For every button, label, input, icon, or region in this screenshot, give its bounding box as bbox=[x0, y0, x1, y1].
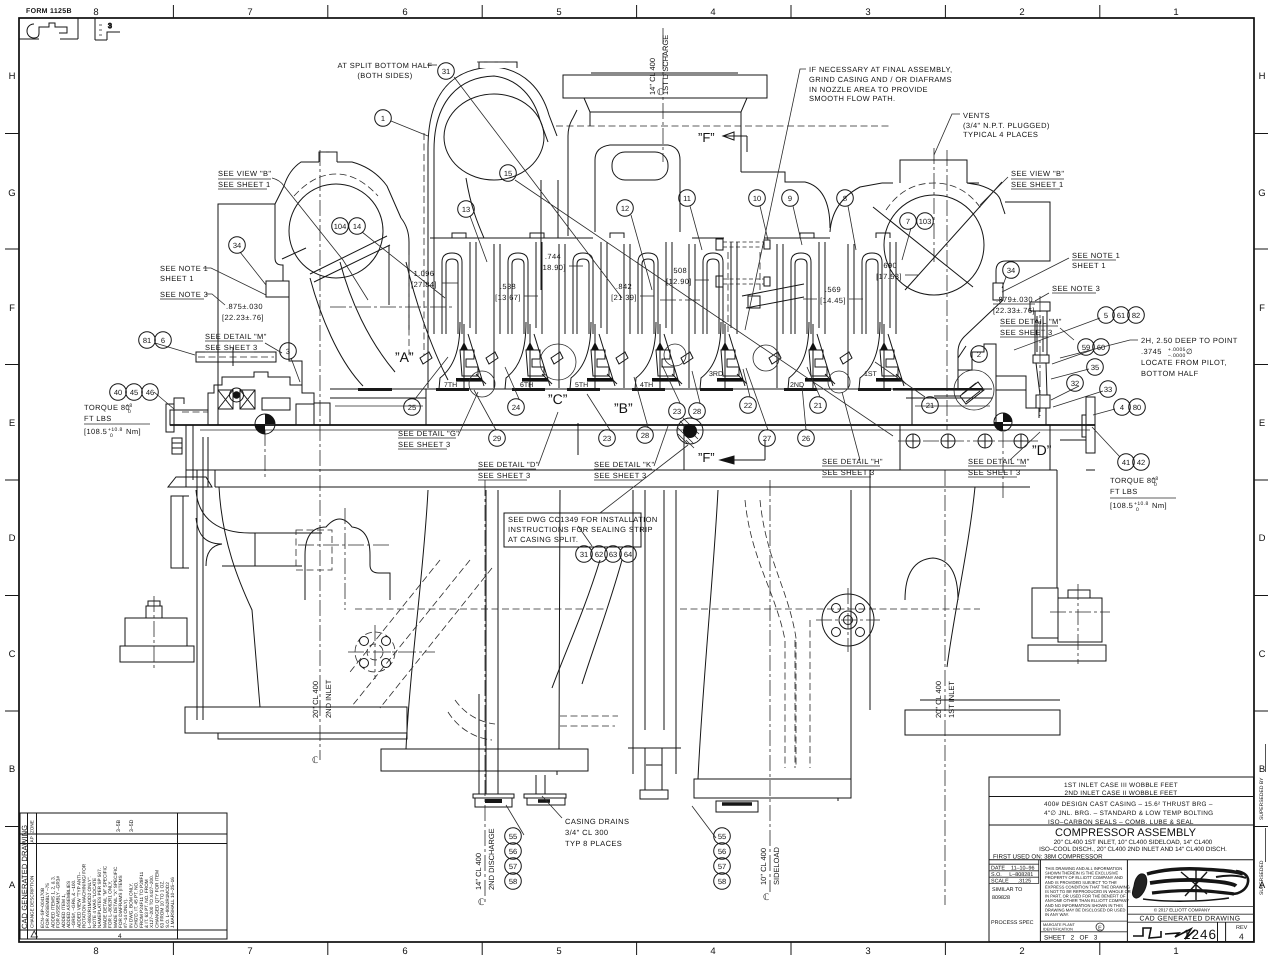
left bell studs bbox=[479, 490, 498, 794]
svg-text:F: F bbox=[1259, 303, 1265, 314]
svg-text:E: E bbox=[9, 418, 15, 429]
left coupling shaft end bbox=[166, 398, 208, 487]
svg-text:7: 7 bbox=[247, 946, 252, 957]
svg-text:SEE VIEW "B": SEE VIEW "B" bbox=[1011, 169, 1064, 178]
title block row1 feet notes bbox=[1064, 782, 1178, 797]
svg-text:3RD: 3RD bbox=[709, 371, 723, 378]
svg-text:SEE DETAIL "K": SEE DETAIL "K" bbox=[594, 460, 655, 469]
balloon 23 bbox=[669, 403, 686, 420]
svg-text:S.O. L–808281: S.O. L–808281 bbox=[991, 872, 1033, 878]
svg-text:4: 4 bbox=[118, 933, 122, 940]
svg-text:ℂ: ℂ bbox=[478, 897, 484, 907]
svg-text:H: H bbox=[1259, 71, 1266, 82]
svg-text:(BOTH SIDES): (BOTH SIDES) bbox=[357, 71, 412, 80]
svg-text:”C”: ”C” bbox=[548, 391, 568, 407]
svg-text:24: 24 bbox=[512, 403, 520, 412]
svg-text:400# DESIGN CAST CASING –: 400# DESIGN CAST CASING – 15.6² THRUST B… bbox=[1044, 801, 1213, 808]
svg-text:2ND INLET CASE II WOBBLE: 2ND INLET CASE II WOBBLE FEET bbox=[1065, 790, 1178, 797]
svg-text:.879±.030: .879±.030 bbox=[996, 295, 1033, 304]
detail circle 4th seal bbox=[753, 345, 779, 371]
svg-text:SIDELOAD: SIDELOAD bbox=[772, 846, 781, 885]
dim .538 bbox=[495, 282, 521, 302]
legal paragraph bbox=[1045, 866, 1131, 917]
svg-text:20" CL 400: 20" CL 400 bbox=[311, 681, 320, 718]
stage 2nd bbox=[769, 242, 835, 389]
svg-text:1246: 1246 bbox=[1183, 927, 1217, 942]
svg-text:SEE DETAIL "M": SEE DETAIL "M" bbox=[205, 332, 267, 341]
title block row2 design notes bbox=[1044, 801, 1213, 826]
svg-text:SUPERSEDED BY: SUPERSEDED BY bbox=[1259, 777, 1265, 820]
svg-text:PROCESS SPEC: PROCESS SPEC bbox=[991, 920, 1034, 926]
svg-text:12: 12 bbox=[621, 204, 629, 213]
svg-text:2ND DISCHARGE: 2ND DISCHARGE bbox=[487, 828, 496, 890]
balloon 2 bbox=[971, 346, 988, 363]
svg-text:20" CL 400: 20" CL 400 bbox=[934, 681, 943, 718]
circled E bbox=[1096, 923, 1104, 931]
svg-text:13: 13 bbox=[462, 205, 470, 214]
balloon 3 bbox=[280, 343, 297, 360]
left bell inlet bbox=[381, 490, 588, 807]
lower casing left edge bbox=[215, 487, 1030, 707]
svg-text:E: E bbox=[1259, 418, 1265, 429]
balloon 21 bbox=[810, 397, 827, 414]
nozzle text 2nd discharge bbox=[474, 828, 496, 890]
balloon 10 bbox=[749, 190, 766, 207]
svg-text:28: 28 bbox=[693, 407, 701, 416]
balloon 9 bbox=[782, 190, 799, 207]
svg-text:0: 0 bbox=[1136, 507, 1139, 513]
svg-text:IN NOZZLE AREA TO PROVIDE: IN NOZZLE AREA TO PROVIDE bbox=[809, 85, 928, 94]
svg-text:G: G bbox=[1258, 188, 1265, 199]
svg-text:[13.67]: [13.67] bbox=[495, 293, 521, 302]
balloon 6 bbox=[155, 332, 172, 349]
svg-text:SHEET 2 OF 3: SHEET 2 OF 3 bbox=[1044, 935, 1098, 942]
svg-text:”F”: ”F” bbox=[698, 130, 715, 145]
svg-text:[14.45]: [14.45] bbox=[820, 296, 846, 305]
section partition bolts row1 bbox=[716, 239, 770, 250]
svg-text:.3745: .3745 bbox=[1141, 347, 1162, 356]
return channel centerline bbox=[330, 300, 700, 307]
balloon 15 bbox=[500, 165, 517, 182]
svg-text:ℂ: ℂ bbox=[312, 755, 318, 765]
svg-text:SEE SHEET 3: SEE SHEET 3 bbox=[205, 343, 258, 352]
svg-text:64: 64 bbox=[624, 550, 632, 559]
nozzle text 1st discharge bbox=[648, 35, 670, 95]
svg-text:C: C bbox=[1259, 649, 1266, 660]
svg-text:H: H bbox=[9, 71, 16, 82]
svg-text:.744: .744 bbox=[545, 252, 561, 261]
right pedestal bbox=[870, 470, 1060, 735]
left foot plate bbox=[185, 707, 407, 739]
balloon 26 bbox=[798, 430, 815, 447]
nozzle text 2nd inlet bbox=[311, 679, 333, 718]
signature scribble and number bbox=[1133, 928, 1195, 939]
balloon 64 bbox=[620, 546, 637, 563]
balloon 58 bbox=[505, 873, 522, 890]
svg-text:A: A bbox=[9, 880, 16, 891]
dim 1.096 bbox=[411, 269, 437, 289]
svg-text:22: 22 bbox=[744, 401, 752, 410]
svg-text:SEE SHEET 3: SEE SHEET 3 bbox=[478, 471, 531, 480]
svg-text:SEE DWG CC1349 FOR INSTALLATIO: SEE DWG CC1349 FOR INSTALLATION bbox=[508, 515, 658, 524]
svg-text:[12.90]: [12.90] bbox=[666, 277, 692, 286]
svg-text:3/4" CL 300: 3/4" CL 300 bbox=[565, 828, 608, 837]
svg-text:5TH: 5TH bbox=[575, 382, 588, 389]
anti-rotation strip bbox=[196, 348, 276, 366]
balloon 35 bbox=[1087, 359, 1104, 376]
svg-text:INSTRUCTIONS FOR SEALING STRIP: INSTRUCTIONS FOR SEALING STRIP bbox=[508, 525, 653, 534]
f cut arrow bottom bbox=[720, 440, 765, 464]
revision zone entries bbox=[116, 819, 135, 832]
casing drains note bbox=[565, 817, 629, 848]
right foot bracket bbox=[1028, 588, 1106, 661]
svg-text:(3/4" N.P.T. PLUGGED): (3/4" N.P.T. PLUGGED) bbox=[963, 121, 1050, 130]
vertical centerline 2nd discharge bbox=[484, 480, 486, 903]
balloon 13 bbox=[458, 201, 475, 218]
vertical centerline 1st discharge bbox=[662, 28, 664, 162]
copyright line bbox=[1127, 907, 1253, 923]
svg-text:E: E bbox=[1098, 925, 1102, 931]
svg-text:G: G bbox=[8, 188, 15, 199]
left elbow support plate bbox=[168, 437, 322, 720]
balloon 31 bbox=[576, 546, 593, 563]
balloon 57 bbox=[505, 858, 522, 875]
balloon 58 bbox=[714, 873, 731, 890]
balloon 22 bbox=[740, 397, 757, 414]
right bell inlet bbox=[694, 490, 851, 812]
svg-text:10: 10 bbox=[753, 194, 761, 203]
detail circle g bbox=[469, 371, 495, 397]
svg-text:SEE SHEET 3: SEE SHEET 3 bbox=[1000, 328, 1053, 337]
svg-text:6: 6 bbox=[402, 946, 407, 957]
svg-text:31: 31 bbox=[442, 67, 450, 76]
balloon 14 bbox=[349, 218, 366, 235]
nozzle text 1st inlet bbox=[934, 681, 956, 718]
svg-text:5: 5 bbox=[556, 7, 561, 18]
see view b left bbox=[218, 169, 271, 189]
balloon 55 bbox=[505, 828, 522, 845]
svg-text:GRIND CASING AND / OR DIA: GRIND CASING AND / OR DIAFRAMS bbox=[809, 75, 952, 84]
see detail g bbox=[398, 429, 459, 449]
balloon 104 bbox=[332, 218, 349, 235]
balloon 81 bbox=[139, 332, 156, 349]
svg-text:SEE DETAIL "M": SEE DETAIL "M" bbox=[1000, 317, 1062, 326]
svg-text:2: 2 bbox=[1019, 946, 1024, 957]
zone letters left bbox=[8, 71, 16, 891]
svg-text:FT LBS: FT LBS bbox=[1110, 487, 1138, 496]
svg-text:56: 56 bbox=[718, 847, 726, 856]
svg-text:81: 81 bbox=[143, 336, 151, 345]
detail circle right seal bbox=[954, 370, 994, 410]
title block outline bbox=[989, 777, 1254, 942]
svg-text:21: 21 bbox=[814, 401, 822, 410]
svg-text:SEE NOTE 3: SEE NOTE 3 bbox=[1052, 284, 1100, 293]
svg-text:TORQUE 80: TORQUE 80 bbox=[1110, 476, 1156, 485]
balloon 60 bbox=[1093, 339, 1110, 356]
svg-text:.875±.030: .875±.030 bbox=[226, 302, 263, 311]
see note 1 right bbox=[1072, 251, 1120, 270]
balloon 82 bbox=[1128, 307, 1145, 324]
nozzle text sideload bbox=[759, 846, 781, 885]
svg-text:F: F bbox=[9, 303, 15, 314]
svg-text:”F”: ”F” bbox=[698, 450, 715, 465]
svg-text:COMPRESSOR ASSEMBLY: COMPRESSOR ASSEMBLY bbox=[1055, 827, 1197, 839]
zone numbers bottom bbox=[93, 946, 1178, 957]
shaft sleeve line bbox=[335, 405, 990, 407]
svg-text:14: 14 bbox=[353, 222, 361, 231]
svg-text:VENTS: VENTS bbox=[963, 111, 990, 120]
left bearing housing bbox=[208, 372, 330, 425]
svg-text:7TH: 7TH bbox=[444, 382, 457, 389]
svg-text:7: 7 bbox=[906, 217, 910, 226]
svg-text:SCALE .3125: SCALE .3125 bbox=[991, 878, 1031, 884]
note 2h deep bbox=[1141, 336, 1238, 378]
svg-text:23: 23 bbox=[603, 434, 611, 443]
svg-text:46: 46 bbox=[146, 388, 154, 397]
svg-text:B: B bbox=[1259, 764, 1265, 775]
svg-text:5: 5 bbox=[556, 946, 561, 957]
balloon 12 bbox=[617, 200, 634, 217]
detail circle h bbox=[828, 371, 850, 393]
left volute guide vanes bbox=[282, 236, 448, 386]
svg-text:1ST INLET CASE III WOBBLE: 1ST INLET CASE III WOBBLE FEET bbox=[1064, 782, 1178, 789]
stage 7th bbox=[420, 242, 486, 389]
svg-text:1.096: 1.096 bbox=[414, 269, 435, 278]
detail circle mid bbox=[664, 344, 686, 366]
svg-text:[18.90]: [18.90] bbox=[540, 263, 566, 272]
left volute hump bbox=[275, 152, 401, 278]
svg-text:ℂ: ℂ bbox=[763, 892, 769, 902]
svg-text:4TH: 4TH bbox=[640, 382, 653, 389]
svg-text:[27.84]: [27.84] bbox=[411, 280, 437, 289]
svg-text:6TH: 6TH bbox=[520, 382, 533, 389]
svg-text:9: 9 bbox=[788, 194, 792, 203]
svg-text:SUPERSEDED: SUPERSEDED bbox=[1259, 860, 1265, 895]
svg-text:4"∅ JNL. BRG. – STANDARD: 4"∅ JNL. BRG. – STANDARD & LOW TEMP BOLT… bbox=[1044, 810, 1213, 817]
svg-text:.569: .569 bbox=[825, 285, 841, 294]
stage 1st bbox=[840, 242, 906, 389]
right flange plate bbox=[1050, 397, 1095, 470]
right volute x brace bbox=[873, 182, 1002, 290]
torque note left bbox=[84, 403, 141, 439]
dim .690 bbox=[876, 261, 902, 281]
svg-text:63: 63 bbox=[609, 550, 617, 559]
vertical centerline 2nd inlet bbox=[319, 150, 321, 760]
big arch outer bbox=[428, 67, 557, 312]
zone letters right bbox=[1258, 71, 1266, 891]
svg-text:82: 82 bbox=[1132, 311, 1140, 320]
stage 5th bbox=[551, 242, 617, 389]
svg-text:ZONE: ZONE bbox=[30, 820, 35, 833]
svg-text:0: 0 bbox=[128, 409, 131, 415]
right bolt stud assembly bbox=[1030, 302, 1050, 418]
left volute dashed arcs bbox=[294, 152, 378, 196]
flange hidden split line bbox=[556, 125, 890, 127]
svg-text:42: 42 bbox=[1137, 458, 1145, 467]
svg-text:LOCATE FROM PILOT,: LOCATE FROM PILOT, bbox=[1141, 358, 1227, 367]
balloon 28 bbox=[689, 403, 706, 420]
svg-text:57: 57 bbox=[509, 862, 517, 871]
svg-text:21: 21 bbox=[926, 401, 934, 410]
big arch split tab bbox=[479, 62, 517, 68]
svg-text:IDENTIFICATION: IDENTIFICATION bbox=[1043, 928, 1073, 932]
svg-text:2ND INLET: 2ND INLET bbox=[324, 679, 333, 718]
svg-text:SMOOTH FLOW PATH.: SMOOTH FLOW PATH. bbox=[809, 94, 896, 103]
left bell hidden arcs bbox=[448, 700, 618, 740]
svg-text:B: B bbox=[9, 764, 15, 775]
balloon 34 bbox=[229, 237, 246, 254]
svg-text:J.MARSHALL 10–25–16: J.MARSHALL 10–25–16 bbox=[170, 877, 175, 928]
svg-text:SEE SHEET 3: SEE SHEET 3 bbox=[594, 471, 647, 480]
svg-text:TYP 8 PLACES: TYP 8 PLACES bbox=[565, 839, 622, 848]
svg-text:Nm]: Nm] bbox=[1152, 501, 1167, 510]
svg-text:SHEET 1: SHEET 1 bbox=[1072, 261, 1106, 270]
svg-text:7: 7 bbox=[247, 7, 252, 18]
svg-text:SEE SHEET 1: SEE SHEET 1 bbox=[1011, 180, 1064, 189]
balloon 42 bbox=[1133, 454, 1150, 471]
svg-text:11: 11 bbox=[683, 194, 691, 203]
svg-text:”B”: ”B” bbox=[614, 400, 633, 416]
zone ticks left bbox=[5, 134, 19, 827]
stage 4th bbox=[616, 242, 682, 389]
svg-text:5: 5 bbox=[1104, 311, 1108, 320]
note if necessary bbox=[809, 65, 952, 103]
svg-text:29: 29 bbox=[493, 434, 501, 443]
svg-text:CHANGE DESCRIPTION: CHANGE DESCRIPTION bbox=[30, 876, 35, 928]
svg-text:”D”: ”D” bbox=[1032, 442, 1052, 458]
see detail m right top bbox=[1000, 317, 1062, 337]
margate plant id bbox=[1040, 921, 1127, 932]
center section target bbox=[677, 418, 703, 448]
balloon 55 bbox=[714, 828, 731, 845]
svg-text:C: C bbox=[9, 649, 16, 660]
right bolt circle flange bbox=[822, 594, 874, 646]
section partition wall bbox=[728, 252, 760, 332]
svg-text:3–5D: 3–5D bbox=[129, 819, 135, 832]
zone ticks top bbox=[173, 5, 1099, 18]
svg-text:CAD GENERATED DRAWING: CAD GENERATED DRAWING bbox=[1140, 916, 1241, 923]
balloon 1 bbox=[375, 110, 392, 127]
see view b right bbox=[1011, 169, 1064, 189]
casing split line main bbox=[170, 424, 1095, 426]
revision table headers bbox=[30, 820, 35, 928]
svg-text:0: 0 bbox=[1154, 482, 1157, 488]
svg-text:SIMILAR TO: SIMILAR TO bbox=[992, 887, 1022, 893]
svg-text:15: 15 bbox=[504, 169, 512, 178]
svg-text:TYPICAL 4 PLACES: TYPICAL 4 PLACES bbox=[963, 130, 1038, 139]
balloon 59 bbox=[1078, 339, 1095, 356]
svg-text:62: 62 bbox=[595, 550, 603, 559]
svg-text:”A”: ”A” bbox=[395, 349, 414, 365]
svg-text:3: 3 bbox=[865, 946, 870, 957]
svg-text:IF NECESSARY AT FINAL ASSE: IF NECESSARY AT FINAL ASSEMBLY, bbox=[809, 65, 952, 74]
svg-text:34: 34 bbox=[233, 241, 241, 250]
left foot bracket bbox=[120, 601, 194, 662]
svg-text:40: 40 bbox=[114, 388, 122, 397]
svg-text:6: 6 bbox=[402, 7, 407, 18]
svg-text:SEE SHEET 3: SEE SHEET 3 bbox=[968, 468, 1021, 477]
discharge throat bbox=[541, 180, 558, 290]
svg-text:SEE DETAIL "G": SEE DETAIL "G" bbox=[398, 429, 459, 438]
svg-text:3: 3 bbox=[286, 347, 290, 356]
svg-text:ISO–CARBON SEALS – COMB. L: ISO–CARBON SEALS – COMB. LUBE & SEAL bbox=[1048, 819, 1194, 826]
svg-text:[108.5: [108.5 bbox=[84, 427, 107, 436]
right bell hidden pipes bbox=[745, 500, 810, 768]
svg-text:SEE NOTE 1: SEE NOTE 1 bbox=[1072, 251, 1120, 260]
svg-text:.538: .538 bbox=[500, 282, 516, 291]
balloon 41 bbox=[1118, 454, 1135, 471]
svg-text:DATE 11–10–96: DATE 11–10–96 bbox=[991, 865, 1035, 871]
svg-text:AT SPLIT BOTTOM HALF: AT SPLIT BOTTOM HALF bbox=[338, 61, 433, 70]
svg-text:.508: .508 bbox=[671, 266, 687, 275]
elliott logo scribble bbox=[1132, 868, 1248, 901]
balloon 8 bbox=[837, 190, 854, 207]
svg-text:809828: 809828 bbox=[992, 895, 1010, 901]
zone ticks right bbox=[1254, 134, 1268, 827]
svg-text:61: 61 bbox=[1117, 311, 1125, 320]
dim .508 bbox=[666, 266, 692, 286]
svg-text:FIRST USED ON: 38M COMPRES: FIRST USED ON: 38M COMPRESSOR bbox=[993, 853, 1103, 860]
section partition bolts row2 bbox=[716, 276, 770, 287]
svg-text:4: 4 bbox=[710, 7, 715, 18]
see note 3 left bbox=[160, 290, 208, 299]
vertical centerline 1st inlet bbox=[265, 430, 1003, 905]
balloon 63 bbox=[605, 546, 622, 563]
revision table outline bbox=[20, 813, 227, 939]
left casing outer edge bbox=[218, 204, 302, 425]
top-left stamp boxes bbox=[19, 18, 120, 40]
svg-text:80: 80 bbox=[1133, 403, 1141, 412]
sealing strip note box bbox=[504, 513, 641, 547]
svg-text:8: 8 bbox=[843, 194, 847, 203]
svg-text:1ST DISCHARGE: 1ST DISCHARGE bbox=[661, 35, 670, 95]
balloon 62 bbox=[591, 546, 608, 563]
detail circle c bbox=[540, 344, 576, 380]
dim .842 bbox=[611, 282, 637, 302]
svg-text:41: 41 bbox=[1122, 458, 1130, 467]
svg-text:10" CL 400: 10" CL 400 bbox=[759, 848, 768, 885]
svg-text:1: 1 bbox=[381, 114, 385, 123]
vertical centerline vents bbox=[934, 148, 947, 430]
see note 3 right bbox=[1052, 284, 1100, 293]
svg-text:MARGATE PLANT: MARGATE PLANT bbox=[1043, 923, 1075, 927]
stage 3rd bbox=[681, 242, 747, 389]
balloon 33 bbox=[1100, 381, 1117, 398]
see view b leader left bbox=[272, 178, 368, 300]
svg-text:.690: .690 bbox=[881, 261, 897, 270]
svg-text:55: 55 bbox=[509, 832, 517, 841]
see detail k bbox=[594, 460, 655, 480]
svg-text:55: 55 bbox=[718, 832, 726, 841]
svg-text:58: 58 bbox=[509, 877, 517, 886]
svg-text:20" CL400 1ST INLET, 10" CL400: 20" CL400 1ST INLET, 10" CL400 SIDELOAD,… bbox=[1054, 839, 1213, 846]
dim .569 bbox=[820, 285, 846, 305]
svg-text:58: 58 bbox=[718, 877, 726, 886]
svg-text:CAD GENERATED DRAWING: CAD GENERATED DRAWING bbox=[20, 825, 29, 929]
svg-text:SEE DETAIL "M": SEE DETAIL "M" bbox=[968, 457, 1030, 466]
drawing number strip bbox=[1218, 922, 1226, 941]
balloon 80 bbox=[1129, 399, 1146, 416]
svg-text:2: 2 bbox=[977, 350, 981, 359]
balloon leaders bbox=[154, 77, 1120, 838]
svg-text:TORQUE 80: TORQUE 80 bbox=[84, 403, 130, 412]
f cut arrow top bbox=[723, 132, 747, 152]
zone ticks bottom bbox=[173, 942, 1099, 955]
svg-text:CASING DRAINS: CASING DRAINS bbox=[565, 817, 629, 826]
svg-text:2H, 2.50 DEEP TO POINT: 2H, 2.50 DEEP TO POINT bbox=[1141, 336, 1238, 345]
right casing corner bbox=[958, 202, 1050, 388]
center column bbox=[628, 490, 681, 799]
